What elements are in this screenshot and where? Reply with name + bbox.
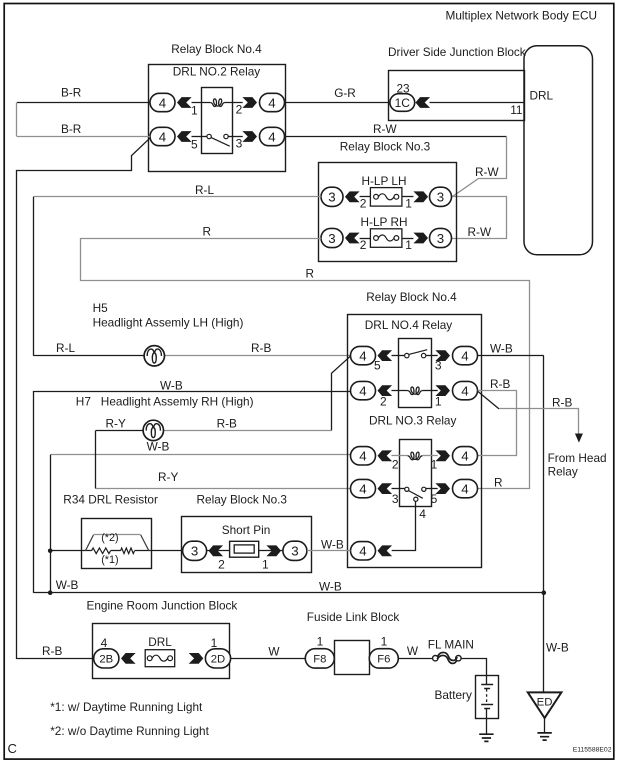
svg-text:W-B: W-B [321, 537, 344, 551]
DRL NO.2 relay coil [192, 99, 243, 107]
svg-text:R-B: R-B [251, 341, 271, 355]
connector arrow NO.4 pin5 [378, 350, 393, 361]
wire W-B main riser [543, 356, 545, 693]
svg-text:1: 1 [405, 197, 412, 211]
DRL NO.4 relay coil [392, 387, 438, 395]
svg-text:E115588E02: E115588E02 [573, 747, 612, 754]
connector arrow NO.2 pin1 [177, 97, 192, 108]
DRL NO.3 relay switch [392, 487, 438, 501]
svg-text:3: 3 [392, 492, 399, 506]
wire H7 R-B horizontal [164, 430, 332, 432]
svg-text:3: 3 [437, 190, 444, 205]
svg-text:R: R [203, 224, 212, 238]
connector 4 (NO.4 pin2) [351, 381, 376, 399]
connector 4 (NO.4 pin3) [453, 346, 478, 364]
connector 4 (NO.3 pin2) [351, 447, 376, 465]
lamp H7 [143, 420, 163, 440]
svg-text:1: 1 [317, 635, 324, 649]
wire G-R [285, 102, 390, 104]
svg-text:B-R: B-R [61, 122, 81, 136]
svg-text:From Head: From Head [548, 451, 607, 465]
svg-text:3: 3 [435, 359, 442, 373]
wire W-B left mid riser [50, 455, 52, 593]
svg-text:R-B: R-B [552, 395, 572, 409]
wire NO.3 pin4 [392, 501, 416, 550]
wire H5 R-B to NO.4 pin5 [164, 355, 351, 357]
svg-text:4: 4 [159, 95, 166, 110]
wire ED to ground [544, 718, 546, 733]
svg-text:R-Y: R-Y [158, 470, 178, 484]
svg-text:R34 DRL Resistor: R34 DRL Resistor [63, 492, 158, 506]
fusible link FL MAIN [433, 652, 462, 663]
svg-text:4: 4 [461, 481, 468, 496]
lamp H5 [144, 346, 164, 366]
DRL NO.4 relay switch [392, 350, 438, 358]
battery BAT [476, 676, 499, 719]
svg-text:Relay Block No.4: Relay Block No.4 [171, 42, 262, 56]
connector 4 (NO.3 pin5) [453, 479, 478, 497]
DRL NO.3 relay coil [392, 452, 438, 460]
wire through short pin [207, 550, 283, 552]
svg-text:Engine Room Junction Block: Engine Room Junction Block [87, 598, 238, 612]
svg-text:3: 3 [291, 544, 298, 559]
wire R-B from head relay [499, 409, 579, 434]
svg-text:1: 1 [435, 394, 442, 408]
svg-text:W-B: W-B [160, 378, 183, 392]
svg-text:5: 5 [374, 359, 381, 373]
svg-text:H7: H7 [76, 395, 91, 409]
wire R-W loop to H-LP RH [452, 197, 507, 239]
svg-text:3: 3 [328, 190, 335, 205]
connector 4 (NO.2 pin5 side) [150, 127, 175, 145]
svg-text:4: 4 [359, 383, 366, 398]
svg-text:W: W [268, 644, 280, 658]
svg-text:5: 5 [191, 137, 198, 151]
svg-text:2: 2 [392, 458, 399, 472]
short pin element [230, 541, 259, 557]
ground (battery) [479, 734, 493, 741]
svg-text:1: 1 [262, 557, 269, 571]
DRL NO.2 relay switch [192, 134, 243, 146]
svg-text:(*1): (*1) [101, 554, 118, 566]
connector arrow H-LP RH pin1 [413, 233, 428, 244]
svg-text:B-R: B-R [61, 85, 81, 99]
connector 4 (NO.2 pin1 side) [150, 93, 175, 111]
wire stub H-LP LH left [360, 196, 371, 198]
connector arrow NO.4 pin2 [378, 385, 393, 396]
svg-text:1C: 1C [395, 96, 411, 110]
svg-text:R: R [494, 476, 503, 490]
wire R-B diagonal [478, 391, 499, 409]
connector arrow NO.2 pin3 [242, 131, 257, 142]
wire W-B to NO.3 pin2 [50, 454, 350, 456]
connector arrow NO.2 pin2 [242, 97, 257, 108]
svg-text:W-B: W-B [490, 341, 513, 355]
svg-text:Relay: Relay [548, 464, 578, 478]
svg-text:4: 4 [461, 348, 468, 363]
wire R net [81, 239, 530, 489]
svg-text:W: W [407, 644, 419, 658]
svg-text:Headlight Assemly RH (High): Headlight Assemly RH (High) [101, 395, 254, 409]
ground point ED triangle [528, 692, 562, 718]
wire R-W riser to H-LP LH [452, 137, 507, 197]
svg-text:Relay Block No.4: Relay Block No.4 [366, 290, 457, 304]
junction dot W-B/ED [542, 590, 547, 595]
svg-text:3: 3 [328, 231, 335, 246]
svg-text:W-B: W-B [546, 641, 569, 655]
wire B-R to NO.2 pin1 [17, 102, 150, 104]
connector 1C [390, 94, 415, 112]
svg-text:2D: 2D [211, 654, 225, 666]
connector arrow NO.3 pin1 [435, 450, 450, 461]
svg-text:2B: 2B [99, 654, 113, 666]
svg-text:4: 4 [419, 507, 426, 521]
svg-text:R-Y: R-Y [106, 417, 126, 431]
wire F6 to FL MAIN [399, 658, 433, 660]
svg-text:4: 4 [159, 129, 166, 144]
svg-text:5: 5 [431, 492, 438, 506]
svg-text:C: C [8, 741, 17, 756]
svg-text:R-W: R-W [468, 225, 492, 239]
connector arrow H-LP LH pin2 [345, 191, 360, 202]
svg-text:1: 1 [405, 238, 412, 252]
svg-text:1: 1 [381, 635, 388, 649]
connector arrow at 1C [416, 97, 431, 108]
svg-text:2: 2 [360, 197, 367, 211]
svg-text:4: 4 [359, 481, 366, 496]
connector F8 [305, 649, 334, 668]
svg-text:R-W: R-W [373, 122, 397, 136]
fuse H-LP RH [370, 229, 402, 248]
connector 4 (NO.4 pin1) [453, 381, 478, 399]
connector 3 (H-LP RH pin1) [430, 228, 452, 247]
connector arrow 2D [189, 653, 204, 664]
wire H5 left [33, 355, 144, 357]
svg-text:*2: w/o Daytime Running Light: *2: w/o Daytime Running Light [50, 724, 209, 738]
svg-text:R-B: R-B [42, 644, 62, 658]
ground (ED) [537, 733, 551, 740]
svg-text:FL MAIN: FL MAIN [428, 637, 474, 651]
connector 3 (H-LP RH pin2) [321, 228, 343, 247]
svg-text:R-B: R-B [490, 377, 510, 391]
wire H7 R-B riser to NO.4 pin5 [332, 356, 351, 430]
svg-text:Headlight Assemly LH (High): Headlight Assemly LH (High) [93, 315, 244, 329]
svg-text:2: 2 [380, 394, 387, 408]
DRL NO.2 relay block box [149, 65, 286, 172]
svg-text:2: 2 [218, 557, 225, 571]
wire R-W from NO.2 pin3 [285, 136, 507, 138]
connector 2D [205, 649, 230, 668]
junction dot R34/W-B [48, 549, 53, 554]
relay block No.4 box [348, 315, 482, 568]
DRL NO.4 relay element box [399, 339, 432, 408]
svg-text:ED: ED [537, 696, 553, 708]
svg-text:DRL NO.4 Relay: DRL NO.4 Relay [365, 318, 453, 332]
svg-text:Multiplex Network Body ECU: Multiplex Network Body ECU [446, 9, 597, 23]
wire 2D to F8 [231, 658, 306, 660]
wire FL MAIN to battery [461, 659, 486, 676]
svg-text:R-W: R-W [475, 165, 499, 179]
resistor R34 element *1 [92, 548, 183, 554]
resistor R34 bypass *2 [85, 535, 148, 551]
svg-text:R-B: R-B [217, 417, 237, 431]
wire B-R to NO.2 pin5 [17, 136, 150, 138]
svg-text:(*2): (*2) [101, 532, 118, 544]
svg-text:Relay Block No.3: Relay Block No.3 [197, 492, 288, 506]
connector 4 (NO.3 pin3) [351, 479, 376, 497]
short pin block box [182, 517, 312, 573]
svg-text:1: 1 [191, 103, 198, 117]
svg-text:2: 2 [236, 102, 243, 116]
svg-text:F8: F8 [313, 654, 326, 666]
svg-text:1: 1 [431, 458, 438, 472]
svg-text:3: 3 [437, 231, 444, 246]
wire W-B from NO.4 pin3 [478, 355, 544, 357]
svg-text:3: 3 [191, 544, 198, 559]
wire R-L horizontal [33, 196, 321, 198]
wire W-B to NO.4 pin2 [33, 391, 350, 393]
connector 2B [94, 649, 119, 668]
svg-text:Driver Side Junction Block: Driver Side Junction Block [388, 45, 526, 59]
engine room junction block box [93, 624, 230, 679]
svg-text:1: 1 [211, 636, 218, 650]
connector 4 (NO.3 pin1) [453, 447, 478, 465]
svg-text:Relay Block No.3: Relay Block No.3 [340, 139, 431, 153]
connector 3 (H-LP LH pin2) [321, 187, 343, 206]
svg-text:DRL NO.3 Relay: DRL NO.3 Relay [369, 413, 457, 427]
svg-text:F6: F6 [377, 654, 390, 666]
connector 4 (NO.2 pin2 side) [260, 93, 285, 111]
svg-text:4: 4 [268, 95, 275, 110]
wire stub H-LP LH right [402, 196, 413, 198]
connector arrow NO.3 pin2 [378, 450, 393, 461]
wire R-B riser from battery [17, 138, 150, 658]
arrow from head relay [575, 434, 583, 443]
svg-text:W-B: W-B [147, 439, 170, 453]
svg-text:H5: H5 [93, 301, 109, 315]
svg-text:3: 3 [236, 136, 243, 150]
svg-text:Battery: Battery [435, 688, 472, 702]
svg-text:*1: w/ Daytime Running Light: *1: w/ Daytime Running Light [50, 700, 203, 714]
svg-text:4: 4 [461, 449, 468, 464]
connector arrow 2B [121, 653, 136, 664]
connector arrow short pin pin1 [266, 545, 281, 556]
wire B-R vertical link [16, 103, 18, 137]
svg-text:4: 4 [359, 348, 366, 363]
wire stub H-LP RH left [360, 238, 371, 240]
wire W-B bottom [33, 592, 543, 594]
connector arrow H-LP LH pin1 [413, 191, 428, 202]
svg-text:4: 4 [359, 449, 366, 464]
connector arrow H-LP RH pin2 [345, 233, 360, 244]
svg-text:R-L: R-L [56, 341, 75, 355]
connector arrow NO.4 pin3 [435, 350, 450, 361]
wire H7 left [96, 430, 143, 432]
svg-text:4: 4 [461, 383, 468, 398]
connector 3 (short pin pin2) [183, 541, 207, 560]
svg-text:Fuside Link Block: Fuside Link Block [307, 610, 400, 624]
svg-text:4: 4 [101, 636, 108, 650]
svg-text:W-B: W-B [56, 578, 79, 592]
connector 4 (NO.2 pin3 side) [260, 127, 285, 145]
connector 4 (NO.4 pin5) [351, 346, 376, 364]
wire W-B left riser [33, 391, 35, 593]
svg-text:H-LP LH: H-LP LH [361, 174, 406, 188]
fuse DRL [145, 650, 175, 667]
svg-text:R-L: R-L [195, 183, 214, 197]
svg-text:2: 2 [360, 238, 367, 252]
connector arrow NO.3 pin4 [378, 545, 393, 556]
connector arrow short pin pin2 [209, 545, 224, 556]
fuse H-LP LH [370, 188, 402, 207]
svg-text:W-B: W-B [319, 579, 342, 593]
wire short pin to NO.3 pin4 [307, 550, 351, 552]
svg-text:DRL: DRL [530, 88, 554, 102]
svg-text:4: 4 [359, 544, 366, 559]
svg-text:G-R: G-R [334, 86, 356, 100]
connector arrow NO.4 pin1 [435, 385, 450, 396]
wire R-Y to NO.3 pin3 [96, 488, 351, 490]
junction dot W-B bottom left [48, 590, 53, 595]
wire 1C to ECU pin 11 [430, 102, 525, 104]
DRL NO.2 relay element box [202, 88, 233, 154]
wire R-L riser [33, 197, 35, 356]
connector arrow NO.3 pin5 [435, 483, 450, 494]
connector arrow NO.2 pin5 [177, 131, 192, 142]
wire NO.4 pin1 to NO.3 pin1 [478, 391, 517, 456]
wire from junction to R34 [50, 550, 91, 552]
connector 3 (short pin pin1) [283, 541, 307, 560]
DRL NO.3 relay element box [400, 440, 432, 507]
relay block No.3 box [319, 163, 457, 262]
driver side junction block J1 [389, 71, 525, 121]
connector arrow NO.3 pin3 [378, 483, 393, 494]
connector 3 (H-LP LH pin1) [430, 187, 452, 206]
svg-text:H-LP RH: H-LP RH [361, 215, 408, 229]
fusible link block body [335, 641, 370, 675]
svg-text:DRL: DRL [148, 635, 172, 649]
wire stub H-LP RH right [402, 238, 413, 240]
svg-text:Short Pin: Short Pin [222, 523, 271, 537]
resistor R34 box [82, 519, 152, 569]
connector 4 (NO.3 pin4) [351, 542, 376, 560]
svg-text:R: R [306, 266, 315, 280]
wire battery to ground [486, 718, 488, 734]
svg-text:11: 11 [510, 103, 522, 117]
wire R-Y riser [95, 430, 97, 488]
svg-text:DRL NO.2 Relay: DRL NO.2 Relay [173, 65, 261, 79]
multiplex network body ECU U1 [524, 46, 593, 255]
connector F6 [369, 649, 398, 668]
svg-text:4: 4 [268, 129, 275, 144]
